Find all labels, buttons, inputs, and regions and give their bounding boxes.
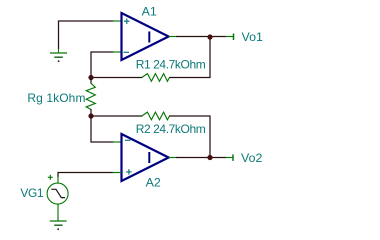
svg-text:A2: A2 bbox=[146, 176, 161, 190]
svg-text:R1 24.7kOhm: R1 24.7kOhm bbox=[136, 58, 206, 72]
op-amp A1 bbox=[122, 13, 169, 60]
svg-text:VG1: VG1 bbox=[20, 186, 44, 200]
ground G1 bbox=[50, 53, 67, 62]
svg-text:Rg 1kOhm: Rg 1kOhm bbox=[27, 91, 85, 105]
junction node B bbox=[88, 113, 93, 118]
wire junction to R1 right lead bbox=[169, 37, 210, 78]
pin stub terminal Vo1 bbox=[226, 36, 234, 38]
svg-text:Vo2: Vo2 bbox=[241, 151, 262, 165]
op-amp A2 bbox=[122, 134, 169, 181]
resistor R2 bbox=[142, 112, 170, 120]
resistor Rg bbox=[86, 78, 95, 117]
pin stub ground G1 bbox=[58, 49, 60, 53]
pin stub A1 + input bbox=[113, 20, 122, 22]
pin stub A1 output bbox=[169, 36, 177, 38]
wire R2 right lead to junction at A2 output bbox=[169, 116, 210, 158]
wire node B down to A2 - input bbox=[91, 116, 114, 142]
wire A1 output to terminal Vo1 bbox=[176, 36, 227, 38]
wire VG1 to A2 + input bbox=[58, 173, 114, 178]
terminal Vo1 bbox=[233, 34, 235, 41]
pin stub VG1 top bbox=[57, 177, 59, 184]
wire from ground G1 to A1 + input bbox=[59, 21, 114, 49]
pin stub A2 output bbox=[169, 157, 177, 159]
pin stub A1 - input bbox=[113, 51, 122, 53]
junction node A bbox=[88, 75, 93, 80]
wire A2 output to terminal Vo2 bbox=[176, 157, 227, 159]
junction node at A1 output bbox=[207, 34, 212, 39]
svg-text:R2 24.7kOhm: R2 24.7kOhm bbox=[136, 122, 206, 136]
pin stub A2 + input bbox=[113, 172, 122, 174]
terminal Vo2 bbox=[232, 154, 234, 161]
junction node at A2 output bbox=[207, 155, 212, 160]
resistor R1 bbox=[142, 74, 170, 82]
pin stub VG1 bottom to ground G2 bbox=[57, 204, 59, 222]
wire from A1 - input down to node A bbox=[91, 52, 114, 78]
wire node B to R2 left lead bbox=[91, 115, 143, 117]
ground G2 bbox=[50, 221, 67, 230]
svg-text:Vo1: Vo1 bbox=[242, 30, 263, 44]
svg-text:A1: A1 bbox=[142, 5, 157, 19]
wire node A to R1 left lead bbox=[91, 77, 143, 79]
pin stub A2 - input bbox=[113, 141, 122, 143]
voltage source VG1 bbox=[47, 175, 68, 204]
pin stub terminal Vo2 bbox=[226, 157, 234, 159]
